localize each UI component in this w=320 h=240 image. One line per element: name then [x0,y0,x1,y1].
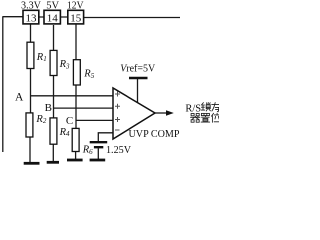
svg-text:A: A [15,91,24,103]
svg-text:14: 14 [47,12,59,24]
svg-text:B: B [45,102,52,114]
svg-text:13: 13 [26,12,38,24]
svg-text:UVP COMP: UVP COMP [129,128,180,140]
svg-text:3.3V: 3.3V [21,1,41,12]
svg-text:Vref=5V: Vref=5V [120,63,155,75]
svg-text:C: C [66,115,73,127]
svg-text:R/S: R/S [185,103,201,114]
svg-text:5V: 5V [46,1,59,12]
svg-text:12V: 12V [67,1,84,12]
svg-text:15: 15 [70,12,82,24]
svg-text:1.25V: 1.25V [106,144,131,156]
